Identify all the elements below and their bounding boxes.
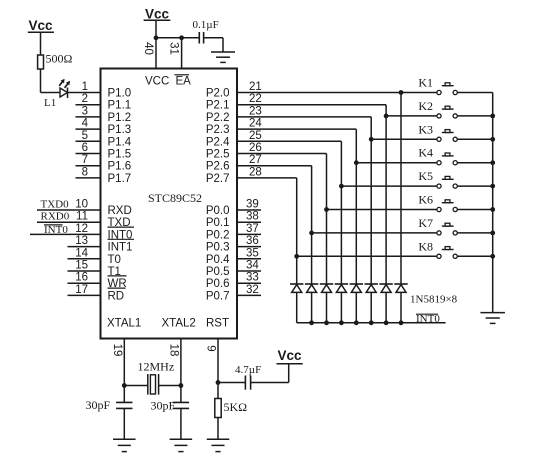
svg-text:P0.0: P0.0 <box>206 205 230 217</box>
svg-text:VCC: VCC <box>145 76 169 88</box>
svg-text:P2.6: P2.6 <box>206 161 230 173</box>
svg-text:K6: K6 <box>418 193 433 207</box>
svg-text:37: 37 <box>246 223 259 235</box>
svg-text:P0.1: P0.1 <box>206 217 230 229</box>
svg-text:36: 36 <box>246 235 259 247</box>
svg-text:1: 1 <box>82 81 88 93</box>
svg-text:RXD0: RXD0 <box>41 211 70 223</box>
svg-text:30pF: 30pF <box>86 398 111 412</box>
svg-text:9: 9 <box>204 345 216 351</box>
svg-text:P2.0: P2.0 <box>206 88 230 100</box>
svg-text:P1.6: P1.6 <box>108 161 132 173</box>
svg-text:8: 8 <box>82 166 88 178</box>
svg-text:P2.2: P2.2 <box>206 112 230 124</box>
svg-text:12MHz: 12MHz <box>138 360 175 374</box>
svg-text:P0.2: P0.2 <box>206 229 230 241</box>
svg-text:5KΩ: 5KΩ <box>224 400 248 414</box>
svg-text:STC89C52: STC89C52 <box>148 191 202 205</box>
svg-text:0.1µF: 0.1µF <box>193 19 219 31</box>
svg-text:P1.1: P1.1 <box>108 100 132 112</box>
svg-text:1N5819×8: 1N5819×8 <box>410 294 458 306</box>
svg-text:INT0: INT0 <box>44 224 68 236</box>
svg-text:6: 6 <box>82 142 88 154</box>
svg-text:K1: K1 <box>418 76 433 90</box>
svg-text:L1: L1 <box>44 97 56 109</box>
svg-text:7: 7 <box>82 154 88 166</box>
svg-text:31: 31 <box>168 42 180 55</box>
svg-text:K2: K2 <box>418 99 433 113</box>
svg-text:14: 14 <box>75 247 88 259</box>
svg-text:32: 32 <box>246 284 259 296</box>
svg-text:P2.1: P2.1 <box>206 100 230 112</box>
svg-text:500Ω: 500Ω <box>46 52 73 66</box>
svg-text:38: 38 <box>246 211 259 223</box>
svg-text:P0.7: P0.7 <box>206 290 230 302</box>
svg-text:12: 12 <box>75 223 88 235</box>
svg-text:15: 15 <box>75 260 88 272</box>
svg-text:INT1: INT1 <box>108 242 133 254</box>
svg-text:4.7µF: 4.7µF <box>235 364 261 376</box>
svg-text:RXD: RXD <box>108 205 132 217</box>
svg-text:P0.6: P0.6 <box>206 278 230 290</box>
svg-text:P1.3: P1.3 <box>108 124 132 136</box>
svg-text:19: 19 <box>111 344 123 357</box>
svg-text:P1.2: P1.2 <box>108 112 132 124</box>
svg-text:21: 21 <box>249 81 262 93</box>
svg-text:P0.4: P0.4 <box>206 254 230 266</box>
svg-text:34: 34 <box>246 260 259 272</box>
svg-text:16: 16 <box>75 272 88 284</box>
svg-text:P2.5: P2.5 <box>206 149 230 161</box>
svg-text:17: 17 <box>75 284 88 296</box>
svg-text:3: 3 <box>82 105 88 117</box>
svg-text:P1.4: P1.4 <box>108 136 132 148</box>
svg-text:23: 23 <box>249 105 262 117</box>
svg-text:Vcc: Vcc <box>145 6 170 21</box>
svg-text:XTAL2: XTAL2 <box>162 318 196 330</box>
svg-text:P1.0: P1.0 <box>108 88 132 100</box>
svg-text:P1.7: P1.7 <box>108 173 132 185</box>
svg-text:26: 26 <box>249 142 262 154</box>
svg-text:P0.3: P0.3 <box>206 242 230 254</box>
svg-text:P2.7: P2.7 <box>206 173 230 185</box>
svg-text:2: 2 <box>82 93 88 105</box>
svg-text:RST: RST <box>206 318 229 330</box>
svg-text:XTAL1: XTAL1 <box>107 318 141 330</box>
svg-text:K7: K7 <box>418 216 433 230</box>
svg-text:P2.3: P2.3 <box>206 124 230 136</box>
svg-text:INT0: INT0 <box>416 313 440 325</box>
svg-text:13: 13 <box>75 235 88 247</box>
svg-text:P2.4: P2.4 <box>206 136 230 148</box>
svg-text:TXD0: TXD0 <box>41 198 70 210</box>
svg-text:24: 24 <box>249 118 262 130</box>
svg-text:Vcc: Vcc <box>277 348 302 363</box>
svg-text:T0: T0 <box>108 254 121 266</box>
svg-text:28: 28 <box>249 166 262 178</box>
svg-text:EA: EA <box>176 76 192 88</box>
svg-text:33: 33 <box>246 272 259 284</box>
svg-text:39: 39 <box>246 199 259 211</box>
svg-text:11: 11 <box>76 211 88 223</box>
svg-text:4: 4 <box>82 118 89 130</box>
svg-text:18: 18 <box>167 344 179 357</box>
svg-text:35: 35 <box>246 247 259 259</box>
svg-text:40: 40 <box>142 42 154 55</box>
svg-text:Vcc: Vcc <box>28 18 53 33</box>
svg-text:22: 22 <box>249 93 262 105</box>
svg-text:P0.5: P0.5 <box>206 266 230 278</box>
svg-text:27: 27 <box>249 154 262 166</box>
svg-text:RD: RD <box>108 290 125 302</box>
svg-text:10: 10 <box>75 199 88 211</box>
svg-text:P1.5: P1.5 <box>108 149 132 161</box>
svg-text:K5: K5 <box>418 169 433 183</box>
svg-text:K8: K8 <box>418 239 433 253</box>
svg-text:K3: K3 <box>418 122 433 136</box>
svg-text:25: 25 <box>249 130 262 142</box>
svg-text:K4: K4 <box>418 146 433 160</box>
svg-text:5: 5 <box>82 130 88 142</box>
svg-text:30pF: 30pF <box>151 399 176 413</box>
